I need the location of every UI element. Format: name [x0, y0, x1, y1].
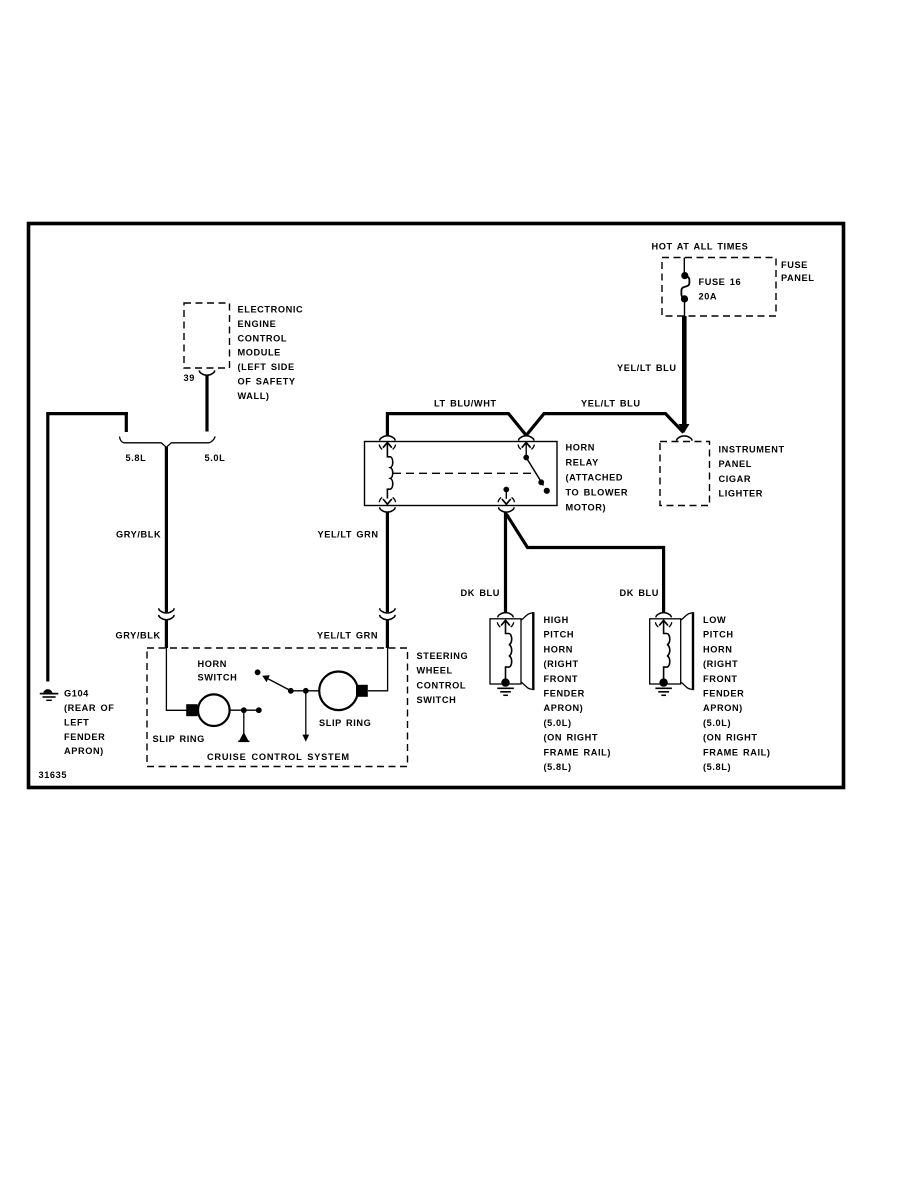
connector cup relay pin 3 (below): [380, 507, 395, 512]
slip ring (left): [186, 704, 197, 716]
wire GRY/BLK into cruise box: [165, 620, 168, 648]
svg-text:(RIGHT: (RIGHT: [544, 659, 579, 669]
svg-text:MOTOR): MOTOR): [566, 502, 607, 512]
switch node dots: [288, 688, 294, 694]
svg-text:31635: 31635: [39, 770, 68, 780]
relay switch pivot: [523, 455, 529, 461]
svg-text:RELAY: RELAY: [566, 457, 599, 467]
svg-text:HOT AT ALL TIMES: HOT AT ALL TIMES: [652, 242, 749, 252]
svg-text:ELECTRONIC: ELECTRONIC: [238, 305, 304, 315]
svg-text:GRY/BLK: GRY/BLK: [116, 530, 161, 540]
wire 5.8L branch: [125, 412, 128, 432]
relay internal dashed link: [393, 472, 532, 474]
svg-text:(5.0L): (5.0L): [703, 718, 731, 728]
male arrow at cigar lighter: [679, 424, 690, 433]
svg-text:MODULE: MODULE: [238, 348, 281, 358]
svg-text:(LEFT SIDE: (LEFT SIDE: [238, 362, 295, 372]
svg-text:APRON): APRON): [703, 703, 743, 713]
svg-text:STEERING: STEERING: [417, 651, 469, 661]
svg-text:GRY/BLK: GRY/BLK: [116, 631, 161, 641]
svg-text:(ON RIGHT: (ON RIGHT: [544, 733, 599, 743]
slip ring (right): [319, 672, 358, 711]
svg-text:SLIP RING: SLIP RING: [153, 734, 205, 744]
svg-text:LEFT: LEFT: [64, 717, 89, 727]
relay coil pin arrow (top): [379, 443, 395, 450]
wire from ECM pin 39 (5.0L): [205, 376, 208, 432]
svg-text:CONTROL: CONTROL: [238, 333, 288, 343]
svg-text:HORN: HORN: [198, 659, 227, 669]
wire YEL/LT BLU (to relay): [526, 414, 683, 436]
inline connector (GRY/BLK) upper half: [159, 608, 174, 613]
svg-text:FRONT: FRONT: [703, 674, 738, 684]
connector cup relay pin 2: [519, 436, 534, 441]
merge brace 5.8L/5.0L: [120, 437, 216, 448]
svg-text:SLIP RING: SLIP RING: [319, 718, 371, 728]
down arrow to cruise control: [305, 691, 307, 736]
svg-text:CRUISE CONTROL SYSTEM: CRUISE CONTROL SYSTEM: [207, 752, 350, 762]
svg-text:20A: 20A: [699, 292, 718, 302]
relay switch arm: [526, 458, 543, 486]
G104 ground symbol: [43, 689, 52, 693]
svg-text:FRAME RAIL): FRAME RAIL): [544, 747, 612, 757]
svg-text:(5.8L): (5.8L): [703, 762, 731, 772]
svg-text:(5.0L): (5.0L): [544, 718, 572, 728]
svg-text:APRON): APRON): [544, 703, 584, 713]
svg-text:G104: G104: [64, 689, 89, 699]
svg-text:5.8L: 5.8L: [126, 453, 147, 463]
svg-text:PITCH: PITCH: [703, 630, 734, 640]
svg-text:HORN: HORN: [566, 442, 595, 452]
svg-text:DK BLU: DK BLU: [620, 588, 660, 598]
electronic engine control module box (dashed): [184, 303, 230, 368]
svg-text:TO BLOWER: TO BLOWER: [566, 487, 629, 497]
svg-text:FUSE: FUSE: [781, 260, 808, 270]
svg-text:FENDER: FENDER: [544, 689, 585, 699]
svg-text:LOW: LOW: [703, 615, 726, 625]
high pitch horn H1: [490, 612, 533, 695]
svg-text:YEL/LT BLU: YEL/LT BLU: [581, 399, 641, 409]
svg-text:FENDER: FENDER: [64, 732, 105, 742]
svg-text:5.0L: 5.0L: [205, 453, 226, 463]
relay coil: [387, 443, 392, 499]
svg-text:SWITCH: SWITCH: [417, 695, 457, 705]
svg-text:LIGHTER: LIGHTER: [719, 489, 764, 499]
svg-text:HORN: HORN: [703, 644, 732, 654]
svg-text:FENDER: FENDER: [703, 689, 744, 699]
wire LT BLU/WHT: [387, 414, 526, 436]
svg-text:PANEL: PANEL: [719, 459, 752, 469]
connector cup relay pin 1: [380, 436, 395, 441]
svg-text:SWITCH: SWITCH: [198, 673, 238, 683]
svg-text:WHEEL: WHEEL: [417, 666, 453, 676]
wire DK BLU to high pitch horn: [504, 512, 507, 612]
svg-text:HORN: HORN: [544, 644, 573, 654]
svg-text:WALL): WALL): [238, 391, 270, 401]
svg-text:(ATTACHED: (ATTACHED: [566, 472, 624, 482]
cruise control system box (dashed): [147, 648, 408, 767]
wire YEL/LT GRN into cruise box: [386, 620, 389, 648]
svg-text:INSTRUMENT: INSTRUMENT: [719, 445, 785, 455]
connector cup relay pin 4 (below): [499, 507, 514, 512]
svg-text:FRAME RAIL): FRAME RAIL): [703, 747, 771, 757]
svg-text:APRON): APRON): [64, 746, 104, 756]
svg-text:PITCH: PITCH: [544, 630, 575, 640]
wire GRY/BLK horizontal to G104 branch: [48, 412, 128, 415]
svg-text:YEL/LT BLU: YEL/LT BLU: [617, 363, 677, 373]
relay output pin: [503, 487, 509, 493]
wire to right slip ring (inside cruise box): [368, 648, 388, 691]
svg-text:DK BLU: DK BLU: [461, 588, 501, 598]
svg-text:LT BLU/WHT: LT BLU/WHT: [434, 399, 497, 409]
horn relay box: [365, 442, 558, 506]
wire to left slip ring (inside cruise box): [166, 648, 186, 710]
wire YEL/LT BLU (thick feed from fuse): [682, 316, 687, 429]
horn switch contact drop: [243, 710, 245, 734]
border frame: [29, 224, 844, 788]
svg-text:HIGH: HIGH: [544, 615, 569, 625]
svg-text:(ON RIGHT: (ON RIGHT: [703, 733, 758, 743]
connector cup at ECM pin 39: [199, 370, 214, 375]
svg-text:YEL/LT GRN: YEL/LT GRN: [317, 631, 378, 641]
svg-text:39: 39: [184, 373, 195, 383]
svg-text:PANEL: PANEL: [781, 273, 814, 283]
relay coil pin arrow (bottom): [379, 497, 395, 504]
wire YEL/LT GRN from relay: [386, 512, 389, 612]
svg-text:CONTROL: CONTROL: [417, 680, 467, 690]
horn switch contact (upper): [255, 669, 261, 675]
inline connector (GRY/BLK) lower half: [159, 615, 174, 620]
low pitch horn H2: [650, 612, 693, 695]
svg-text:CIGAR: CIGAR: [719, 474, 752, 484]
inline connector (YEL/LT GRN) upper half: [380, 608, 395, 613]
wire DK BLU branch to low pitch horn: [506, 514, 663, 612]
fuse F16 symbol: [681, 272, 688, 279]
svg-text:(RIGHT: (RIGHT: [703, 659, 738, 669]
connector cup at cigar lighter: [677, 436, 692, 441]
svg-text:OF SAFETY: OF SAFETY: [238, 377, 296, 387]
svg-text:FRONT: FRONT: [544, 674, 579, 684]
svg-text:YEL/LT GRN: YEL/LT GRN: [318, 530, 379, 540]
horn switch arm arrow: [267, 678, 291, 691]
instrument panel cigar lighter box (dashed): [660, 442, 710, 506]
wire G104 drop: [46, 412, 49, 682]
svg-text:FUSE 16: FUSE 16: [699, 277, 742, 287]
inline connector (YEL/LT GRN) lower half: [380, 615, 395, 620]
wire merged GRY/BLK down: [165, 447, 168, 613]
wire into fuse: [683, 258, 685, 275]
svg-text:(REAR OF: (REAR OF: [64, 703, 114, 713]
svg-text:(5.8L): (5.8L): [544, 762, 572, 772]
svg-text:ENGINE: ENGINE: [238, 319, 277, 329]
fuse panel box (dashed): [662, 258, 776, 317]
